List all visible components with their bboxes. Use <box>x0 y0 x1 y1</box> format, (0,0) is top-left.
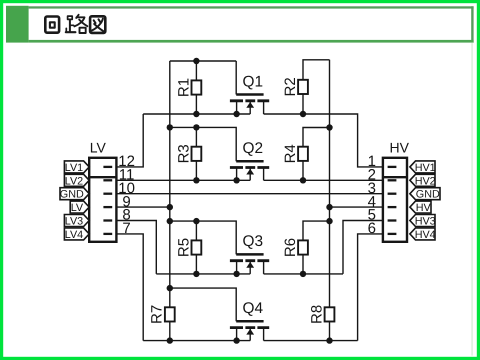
junction LV net at rail E <box>167 285 173 291</box>
wire Q3 source rail <box>156 273 250 275</box>
junction R7 bottom on LV4 rail <box>167 337 173 343</box>
wire Q3 drain rail <box>264 273 343 275</box>
wire LV pin12 to Q1 source <box>116 114 143 167</box>
svg-text:6: 6 <box>368 220 376 237</box>
wire Q2 drain to HV pin2 (net HV2) <box>264 179 383 181</box>
wire HV pin5 down leg (net HV3) <box>343 221 383 274</box>
node HV4 (net tag) <box>410 228 436 241</box>
svg-text:R5: R5 <box>175 238 192 257</box>
svg-text:R6: R6 <box>282 238 299 257</box>
wire Q4 drain rail <box>264 340 358 342</box>
junction R5 bottom on LV3 rail <box>193 271 199 277</box>
title bar frame top <box>29 6 474 8</box>
title underline <box>29 40 474 43</box>
junction Q1 source on LV1 rail <box>233 111 239 117</box>
wire LV pin8 down leg (net LV3) <box>116 221 156 274</box>
svg-text:HV: HV <box>416 202 432 214</box>
node LV1 (net tag) <box>64 161 89 174</box>
resistor R6 <box>282 238 308 257</box>
junction Q3 source on LV3 rail <box>233 271 239 277</box>
svg-text:LV3: LV3 <box>65 216 83 228</box>
svg-text:LV1: LV1 <box>65 162 83 174</box>
wire R2 bottom lead <box>302 94 304 114</box>
junction LV net at rail B <box>167 124 173 130</box>
junction HV net at R6 link <box>326 218 332 224</box>
junction R4 bottom on HV2 rail <box>300 177 306 183</box>
node HV (net tag) <box>410 201 432 214</box>
wire R6 top link <box>303 221 330 240</box>
title bar green square <box>6 6 29 43</box>
node HV2 (net tag) <box>410 174 436 187</box>
svg-text:LV: LV <box>90 139 107 155</box>
resistor R1 <box>175 78 201 97</box>
title kanji RO (路) <box>66 15 88 33</box>
junction HV pin4 on HV net <box>326 204 332 210</box>
node HV3 (net tag) <box>410 215 436 228</box>
svg-text:HV: HV <box>390 139 410 155</box>
resistor R7 <box>149 305 175 324</box>
wire Q1 drain to HV pin1 (net HV1) <box>264 114 383 167</box>
svg-text:R2: R2 <box>282 77 299 96</box>
wire R6 bottom lead <box>302 255 304 274</box>
title kanji KAI (回) <box>45 17 59 33</box>
wire HV net vertical <box>329 60 331 307</box>
transistor Q3 (n-channel MOSFET) <box>230 233 269 274</box>
svg-text:Q1: Q1 <box>243 73 264 90</box>
transistor Q4 (n-channel MOSFET) <box>230 300 269 341</box>
svg-text:Q2: Q2 <box>243 140 264 157</box>
wire R7 bottom lead <box>169 322 171 341</box>
wire HV pin4 to HV net <box>330 206 383 208</box>
title kanji ZU (図) <box>90 16 105 33</box>
wire rail C to Q3 gate <box>170 221 236 254</box>
junction Q4 source on LV4 rail <box>233 337 239 343</box>
resistor R3 <box>175 144 201 163</box>
resistor R8 <box>308 305 334 324</box>
resistor R4 <box>282 144 308 163</box>
wire GND line pin10 to pin3 <box>116 193 383 195</box>
wire Q1 gate lead <box>235 61 237 95</box>
wire Q1 source rail (net LV1) <box>143 113 250 115</box>
node LV3 (net tag) <box>64 215 89 228</box>
wire R2 top link to HV net <box>303 60 330 80</box>
junction R3 bottom on LV2 rail <box>193 177 199 183</box>
svg-text:LV2: LV2 <box>65 175 83 187</box>
svg-text:R7: R7 <box>149 305 166 324</box>
wire R1 leads <box>195 61 197 114</box>
junction R3 top on rail B <box>193 124 199 130</box>
title bar frame right <box>471 6 473 42</box>
junction R6 bottom on HV3 rail <box>300 271 306 277</box>
wire R4 bottom lead <box>302 161 304 180</box>
wire LV pin9 to LV net <box>116 206 169 208</box>
wire top LV gate rail (net LV) <box>170 60 236 62</box>
svg-text:HV2: HV2 <box>415 175 436 187</box>
wire R5 leads <box>195 221 197 274</box>
wire Q4 source rail <box>143 340 250 342</box>
wire LV net vertical <box>169 61 171 307</box>
svg-text:GND: GND <box>60 189 84 201</box>
resistor R5 <box>175 238 201 257</box>
node LV4 (net tag) <box>64 228 89 241</box>
node LV (net tag) <box>70 201 89 214</box>
wire LV pin7 down leg (net LV4) <box>116 234 143 341</box>
node GND (net tag) <box>410 188 440 201</box>
svg-text:LV: LV <box>71 202 84 214</box>
connector LV <box>89 139 116 242</box>
wire R8 bottom lead <box>329 322 331 341</box>
junction R5 top on rail C <box>193 218 199 224</box>
svg-text:R3: R3 <box>175 144 192 163</box>
node HV1 (net tag) <box>410 161 436 174</box>
svg-text:R8: R8 <box>308 305 325 324</box>
svg-text:LV4: LV4 <box>65 229 83 241</box>
node GND (net tag) <box>60 188 89 201</box>
transistor Q2 (n-channel MOSFET) <box>230 140 269 180</box>
junction HV net at R4 link <box>326 124 332 130</box>
junction R8 bottom on HV4 rail <box>326 337 332 343</box>
connector HV <box>383 139 410 242</box>
junction R1 top on LV rail <box>193 58 199 64</box>
junction LV pin9 on LV net <box>167 204 173 210</box>
wire HV pin6 down leg (net HV4) <box>358 234 383 341</box>
junction R1 bottom on LV1 rail <box>193 111 199 117</box>
wire R4 top link <box>303 128 330 147</box>
svg-text:HV3: HV3 <box>415 216 436 228</box>
resistor R2 <box>282 77 308 96</box>
junction LV net at rail C <box>167 218 173 224</box>
svg-text:HV1: HV1 <box>415 162 436 174</box>
transistor Q1 (n-channel MOSFET) <box>230 73 269 114</box>
wire LV pin11 to Q2 source (net LV2) <box>116 179 250 181</box>
junction R2 bottom on HV1 rail <box>300 111 306 117</box>
svg-text:HV4: HV4 <box>415 229 436 241</box>
svg-text:7: 7 <box>122 220 130 237</box>
wire rail E to Q4 gate <box>170 288 236 321</box>
svg-text:R4: R4 <box>282 144 299 163</box>
svg-text:R1: R1 <box>175 78 192 97</box>
node LV2 (net tag) <box>64 174 89 187</box>
wire R3 leads <box>195 127 197 180</box>
wire rail B to Q2 gate <box>170 127 236 161</box>
svg-text:GND: GND <box>416 189 440 201</box>
junction Q2 source on LV2 rail <box>233 177 239 183</box>
svg-text:Q4: Q4 <box>243 300 264 317</box>
pale inner right line <box>471 43 473 356</box>
svg-text:Q3: Q3 <box>243 233 264 250</box>
